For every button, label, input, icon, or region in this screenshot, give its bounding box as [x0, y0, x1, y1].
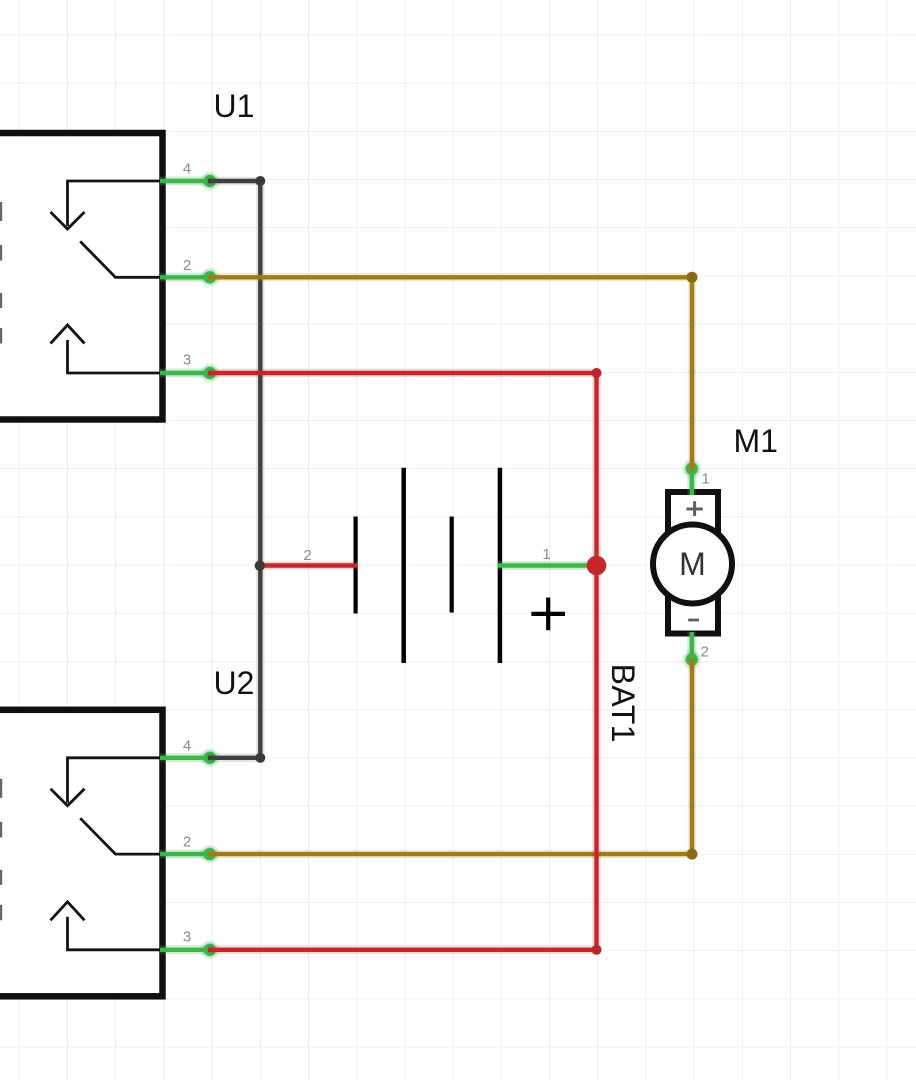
- wire U2.2 to M1.2 (orange net): [208, 659, 692, 855]
- junction dot gray corner bottom: [255, 753, 265, 763]
- junction dot orange corner top: [687, 272, 698, 283]
- svg-text:1: 1: [702, 471, 710, 488]
- svg-text:2: 2: [183, 257, 191, 274]
- body U2: [0, 710, 163, 997]
- wire BAT1.1 to red net (green): [498, 561, 597, 570]
- pin M1.1: [682, 459, 702, 496]
- pin U2.2: [160, 844, 220, 864]
- pin U2.4: [160, 748, 220, 768]
- pin U1.2: [160, 267, 220, 287]
- wire BAT1.2 to gray net: [260, 561, 357, 570]
- switch symbol U1: [51, 181, 161, 373]
- junction dot orange corner bottom: [687, 849, 698, 860]
- slide switch U1: [0, 88, 254, 420]
- pin U2.3: [160, 940, 220, 960]
- junction dot red corner bottom: [592, 945, 602, 955]
- body rectangle M1: [668, 492, 718, 634]
- svg-text:4: 4: [183, 737, 191, 754]
- slide switch U2: [0, 665, 254, 996]
- minus sign M1: [688, 619, 699, 622]
- svg-text:3: 3: [183, 352, 191, 369]
- pin M1.2: [682, 632, 702, 670]
- plate positive long 2: [498, 468, 503, 663]
- motor M1: [653, 423, 778, 661]
- plus sign BAT1: [531, 598, 565, 631]
- plate negative short 1: [354, 517, 358, 614]
- wire U1.3 to BAT1.1 node and U2.3 (red net): [208, 373, 597, 950]
- junction dot red corner top: [592, 368, 602, 378]
- svg-text:1: 1: [542, 546, 550, 563]
- svg-text:4: 4: [183, 161, 191, 178]
- svg-text:M: M: [679, 546, 706, 582]
- svg-text:U1: U1: [214, 88, 255, 124]
- pin U1.4: [160, 171, 220, 191]
- motor circle M1: [653, 525, 732, 604]
- plate positive long 1: [401, 468, 406, 663]
- svg-text:U2: U2: [214, 665, 255, 701]
- junction dot gray corner top: [255, 176, 265, 186]
- svg-text:3: 3: [183, 928, 191, 945]
- junction dot red big at BAT1.1 node: [587, 556, 607, 576]
- wire U1.2 to M1.1 (orange net): [208, 277, 692, 471]
- junction dot gray at BAT1.2 branch: [255, 561, 265, 571]
- pin U1.3: [160, 363, 220, 383]
- switch symbol U2: [51, 758, 161, 950]
- left-edge glyph fragments U1: [0, 202, 2, 344]
- svg-text:M1: M1: [734, 423, 778, 459]
- left-edge glyph fragments U2: [0, 779, 2, 921]
- wire U1.4 to U2.4 (gray net): [208, 181, 260, 758]
- battery BAT1: [303, 468, 640, 743]
- plus sign M1: [686, 501, 702, 516]
- plate negative short 2: [450, 517, 454, 613]
- svg-text:BAT1: BAT1: [605, 664, 641, 743]
- svg-text:2: 2: [183, 834, 191, 851]
- body U1: [0, 133, 163, 420]
